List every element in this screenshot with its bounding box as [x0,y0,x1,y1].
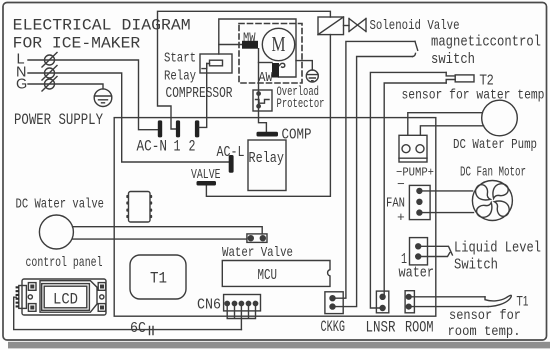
wire solenoid stub [344,25,350,27]
fuse N [42,66,57,81]
chip component [126,192,152,223]
terminal 1 bar [176,120,180,137]
overload protector box [253,90,272,111]
svg-text:room temp.: room temp. [448,324,521,340]
wire bus to pump pin1 and water pump [408,113,482,136]
svg-text:POWER SUPPLY: POWER SUPPLY [14,111,103,129]
svg-text:ELECTRICAL DIAGRAM: ELECTRICAL DIAGRAM [13,17,191,35]
title [13,17,191,53]
LCD screws [28,283,105,312]
dc water valve circle [39,215,73,249]
LCD bezel [40,281,97,313]
winding MW [242,41,258,49]
label Start Relay [164,51,196,85]
motor M circle [262,28,294,60]
label Overload Protector [277,84,325,111]
LCD module board [22,279,106,315]
svg-text:Solenoid Valve: Solenoid Valve [370,18,460,34]
cable marker [150,327,154,335]
svg-text:ROOM: ROOM [405,319,434,337]
svg-text:sensor for water temp: sensor for water temp [402,88,545,104]
circuit board outline [114,118,436,317]
wire L to terminal AC-N [28,60,158,130]
svg-text:DC Fan Motor: DC Fan Motor [460,165,526,181]
wire pump pin2 to water pump [420,126,483,136]
solenoid valve symbol [349,19,366,32]
dc water pump circle [482,100,518,136]
terminal AC-L bar [229,155,234,173]
CKKG connector [325,292,343,314]
svg-text:COMPRESSOR: COMPRESSOR [166,86,233,102]
T2 probe [446,72,474,83]
CN6 connector [224,295,261,311]
terminal AC-N bar [158,120,162,137]
CN6 comb wires [227,305,255,330]
wire room sensor 1 [411,296,486,298]
LCD pivot circles [28,295,104,299]
svg-text:Relay: Relay [164,69,196,85]
svg-text:M: M [272,32,286,56]
wire fan pin1 to fan motor [421,190,473,192]
solenoid coil box [318,17,344,35]
wire G to ground [28,84,103,89]
svg-text:FOR ICE-MAKER: FOR ICE-MAKER [13,35,141,53]
wire AW top tap [259,62,273,64]
overload contact dots [257,92,260,108]
wire terminal 2 to start relay [199,64,206,128]
compressor dashed box [239,24,302,84]
wire start relay to aux winding [219,19,296,77]
svg-text:CKKG: CKKG [321,318,346,336]
terminal COMP bar [257,132,279,137]
winding AW [272,63,279,78]
svg-text:sensor for: sensor for [449,308,521,324]
overload element [256,100,270,104]
wire water valve lower [73,238,247,240]
LCD screen [42,284,90,311]
svg-text:6C: 6C [130,320,146,337]
T1 box [130,255,186,299]
svg-text:T1: T1 [517,293,529,309]
label sensor for room temp [448,308,522,340]
svg-text:Liquid Level: Liquid Level [454,240,541,257]
svg-text:water: water [399,265,435,282]
wire solenoid to valve terminal [206,35,330,197]
magnetic switch wire 1 [335,41,418,298]
wire main winding tap [219,44,242,46]
wire liquid level 2 [420,253,450,257]
bus wire T2 bottom / LNSR 1 [384,83,446,294]
svg-text:AC-N: AC-N [137,138,168,156]
wire room sensor 2 [411,306,489,308]
svg-text:DC Water Pump: DC Water Pump [453,137,537,153]
liquid level connector [410,238,428,265]
svg-text:LNSR: LNSR [366,319,396,337]
wire liquid level 1 [420,246,452,255]
svg-text:MCU: MCU [258,268,278,284]
wire 6C [14,297,242,329]
svg-text:CN6: CN6 [197,297,221,314]
svg-text:LCD: LCD [53,291,78,309]
wire N to bus and AC-L [28,73,229,162]
relay box [248,140,286,191]
svg-text:T1: T1 [150,270,167,288]
svg-text:T2: T2 [480,72,494,89]
svg-text:VALVE: VALVE [191,167,221,183]
svg-text:control panel: control panel [26,255,103,271]
svg-text:G: G [16,77,27,93]
wire fan pin3 to fan motor [421,212,474,214]
svg-text:2: 2 [189,138,196,156]
MCU box [222,261,330,287]
label magneticcontrol switch [431,35,541,69]
fuse G [42,77,57,92]
start relay box [200,54,232,73]
svg-text:Switch: Switch [454,257,498,274]
T1 room sensor probe [485,295,511,306]
svg-text:Water Valve: Water Valve [222,245,293,261]
wire MW to overload and COMP [259,49,267,132]
ROOM connector [405,291,414,313]
bus wire T2 top / LNSR 2 [370,72,446,308]
dc fan motor circle [472,181,512,221]
svg-text:1: 1 [174,138,181,156]
wire terminal 1 to solenoid coil [158,11,331,129]
start relay contact [202,60,223,68]
label 1 water [399,251,435,282]
ground motor [296,61,318,82]
svg-text:+: + [397,210,405,225]
svg-text:switch: switch [431,52,475,68]
fuse L [42,53,57,68]
svg-text:−: − [397,177,405,192]
AW curl [280,63,285,67]
svg-text:Start: Start [164,51,196,67]
LNSR connector [376,291,388,313]
ground power supply [94,89,112,107]
label Liquid Level Switch [454,240,541,274]
svg-text:Protector: Protector [277,96,325,111]
terminal 2 bar [195,120,199,137]
wire water valve upper [73,227,263,234]
fan blades [476,184,510,218]
water valve connector [247,234,267,243]
svg-text:Relay: Relay [249,150,285,167]
svg-text:magneticcontrol: magneticcontrol [431,35,541,51]
terminal VALVE bar [197,181,217,186]
svg-text:DC Water valve: DC Water valve [16,197,105,213]
LCD connector [16,286,27,309]
magnetic switch wire 2 [335,53,416,306]
water pump connector [399,135,427,162]
fan connector [409,185,430,219]
